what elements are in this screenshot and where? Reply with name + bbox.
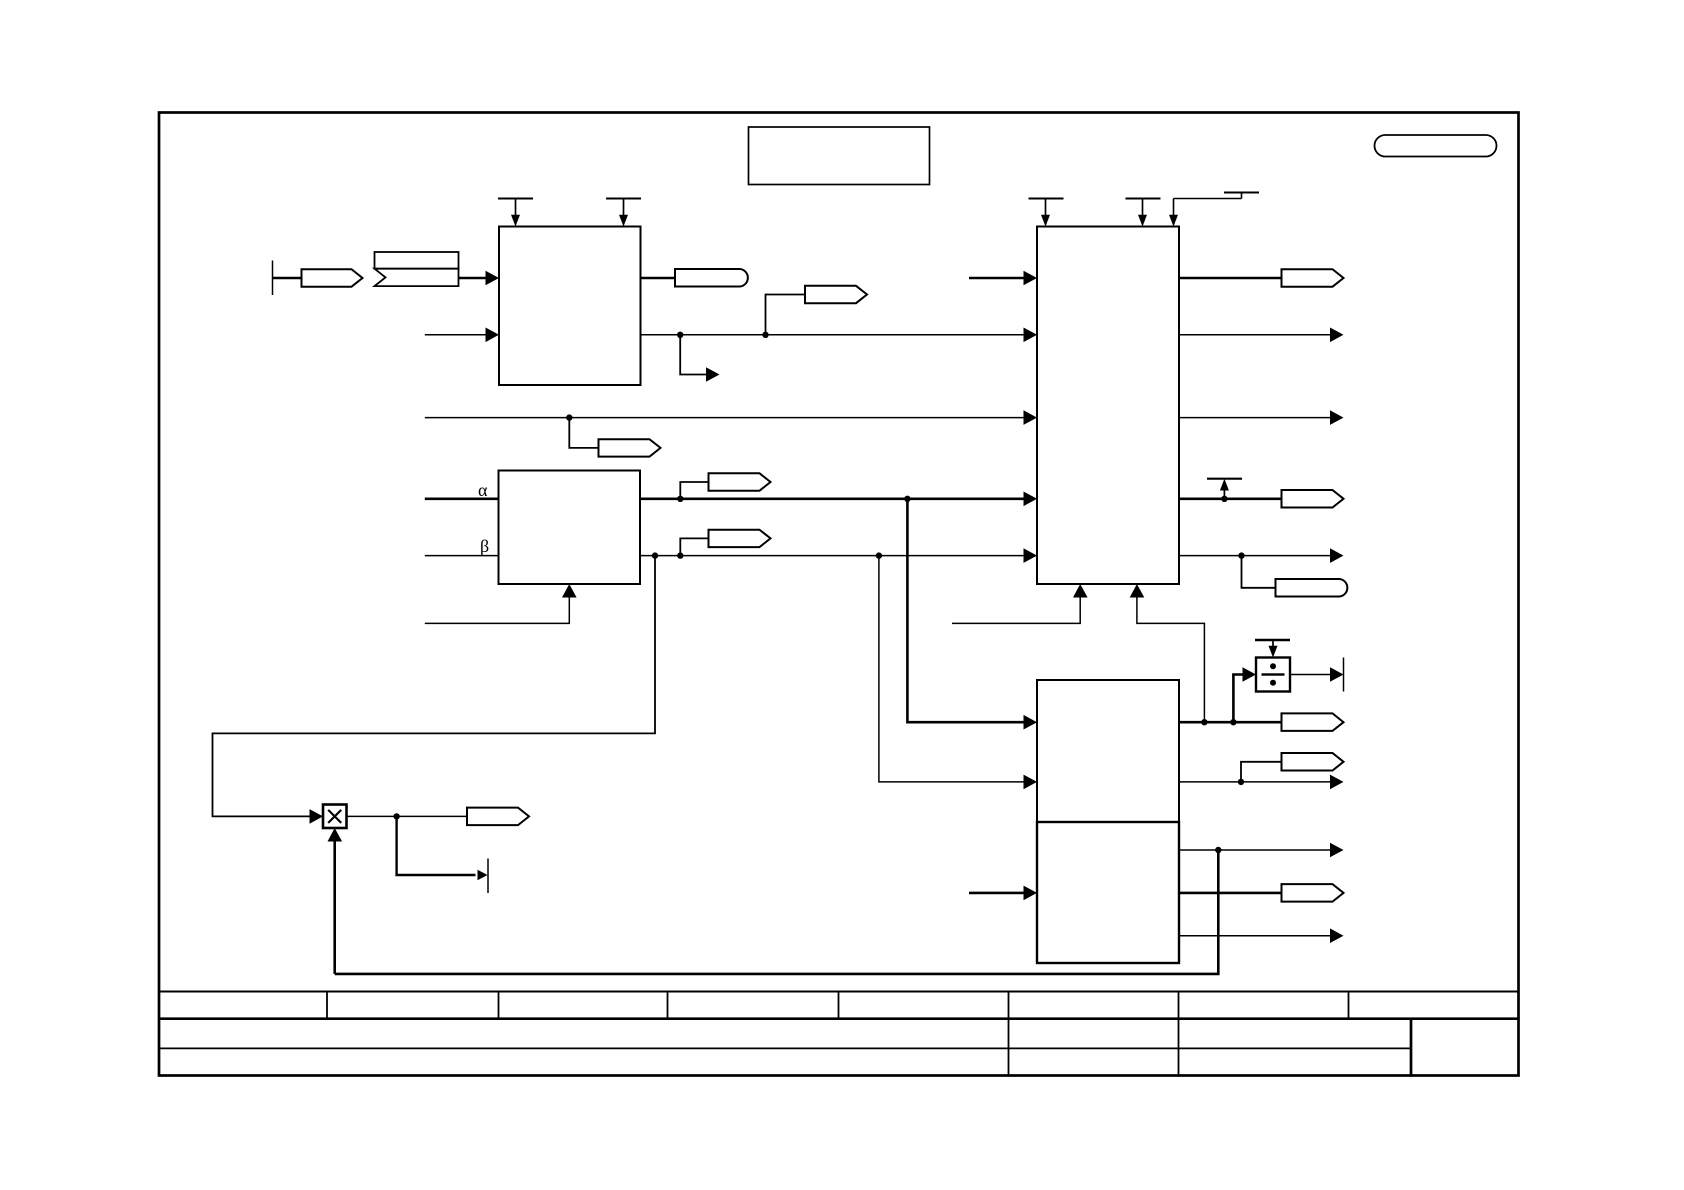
terminator bar divider output — [1343, 658, 1345, 692]
T-bar up symbol — [1207, 479, 1242, 499]
wire U4 out row935 — [1179, 935, 1331, 937]
block U1 — [499, 227, 641, 386]
wire alpha U2 to U3 — [640, 497, 1025, 500]
beta input wire — [425, 555, 499, 557]
arrowhead into U3 bottom left — [1073, 584, 1088, 598]
wire alpha branch to U4 — [907, 499, 1024, 722]
junction dot flag3 branch — [762, 332, 768, 338]
wire beta branch to U4 — [879, 556, 1025, 782]
junction dot T-up symbol — [1221, 496, 1227, 502]
wire beta U2 to U3 — [640, 555, 1025, 557]
terminator bar multiplier branch — [487, 859, 489, 894]
junction dot y417 — [566, 414, 572, 420]
pointed flag3 — [805, 286, 867, 303]
arrowhead divider output — [1330, 667, 1344, 682]
junction dot row722 a — [1201, 719, 1207, 725]
arrowhead into U3 bottom right — [1130, 584, 1145, 598]
arrowhead into U3 in3 — [1024, 410, 1038, 425]
pointed flag12 — [467, 808, 529, 826]
feedback return wire thick — [335, 850, 1219, 974]
divider box — [1256, 658, 1290, 692]
title block row1 divider f — [1178, 992, 1180, 1019]
multiplier box — [323, 805, 347, 829]
title block row1 divider d — [838, 992, 840, 1019]
wire U4 out row850 — [1179, 849, 1331, 851]
title block row1 divider b — [498, 992, 500, 1019]
svg-text:β: β — [480, 536, 489, 556]
wire to divider box — [1233, 675, 1244, 723]
arrowhead multiplier bottom — [328, 828, 343, 842]
junction dot out2 branch — [677, 332, 683, 338]
title block lower divider f — [1178, 1019, 1180, 1076]
arrowhead into U3 in1 — [1024, 271, 1038, 286]
branch wire to terminator — [397, 816, 476, 875]
wire U3 out row555 — [1179, 555, 1331, 557]
arrowhead into terminator — [478, 870, 488, 880]
open arrowhead out781 — [1330, 775, 1344, 790]
elbow wire to flag4 — [569, 418, 598, 448]
T-bar clock input U3 mid — [1126, 199, 1161, 227]
wire U3 out row278 — [1179, 277, 1282, 280]
border frame — [159, 113, 1519, 1076]
wire U3 in1 — [969, 277, 1025, 280]
junction dot out781 — [1238, 779, 1244, 785]
pointed flag5 — [709, 473, 771, 490]
pointed flag U3 out278 — [1282, 269, 1344, 287]
wire net row y417 — [425, 417, 1025, 419]
elbow wire to rounded flag8 — [1242, 556, 1277, 588]
T-bar clock input U1 right — [606, 199, 641, 227]
junction dot beta flag branch — [677, 552, 683, 558]
wire U3 out row334 — [1179, 334, 1331, 336]
title box — [749, 127, 930, 185]
wire U4 out row892 — [1179, 892, 1282, 895]
title block row1 divider c — [667, 992, 669, 1019]
wire IN1 to flag — [273, 277, 302, 280]
block U3 — [1037, 227, 1179, 585]
pointed flag10 — [1282, 753, 1344, 771]
revision pill — [1375, 135, 1497, 157]
junction dot row722 b — [1230, 719, 1236, 725]
wire U1 out1 — [641, 277, 676, 280]
junction dot beta down branch — [876, 552, 882, 558]
rounded flag U1 out1 — [675, 269, 748, 287]
title block lower divider e — [1008, 1019, 1010, 1076]
arrowhead into U3 in2 — [1024, 328, 1038, 343]
pointed flag U4 out722 — [1282, 713, 1344, 731]
title block row1 bottom line — [159, 1017, 1519, 1020]
arrowhead into U4 in1 — [1024, 715, 1038, 730]
wire U4 lower input — [969, 892, 1025, 895]
T-bar above divider box — [1255, 640, 1290, 658]
wire multiplier output — [347, 815, 468, 817]
open arrowhead out334 — [1330, 328, 1344, 343]
junction dot out850 feedback — [1215, 847, 1221, 853]
wire banner to U1 — [459, 277, 488, 280]
junction dot alpha down branch — [904, 496, 910, 502]
open arrowhead out935 — [1330, 928, 1344, 943]
rounded flag8 — [1276, 579, 1348, 597]
title block row2 bottom line — [159, 1047, 1411, 1049]
open arrowhead out555 — [1330, 548, 1344, 563]
wire divider box output — [1290, 674, 1331, 676]
elbow wire to flag5 — [680, 482, 708, 499]
junction dot multiplier output — [393, 813, 399, 819]
wire U1 out2 to U3 in2 — [641, 334, 1025, 336]
divider symbol — [1262, 663, 1285, 686]
wire U2 bottom input — [425, 597, 570, 623]
arrowhead into U3 in5 — [1024, 548, 1038, 563]
pointed flag U3 out498 — [1282, 490, 1344, 508]
elbow wire to flag6 — [680, 538, 708, 555]
arrowhead into divider box — [1243, 667, 1257, 682]
T-bar clock input U1 left — [498, 199, 533, 227]
feedback wire beta loop — [213, 556, 656, 817]
elbow wire to flag10 — [1241, 762, 1282, 782]
open arrowhead out850 — [1330, 843, 1344, 858]
svg-text:α: α — [478, 480, 488, 500]
wire input U1 in2 — [425, 334, 487, 336]
pointed flag4 — [599, 439, 661, 456]
arrowhead into U1 in2 — [486, 328, 500, 343]
arrowhead into U3 in4 — [1024, 492, 1038, 507]
title block top line — [159, 991, 1519, 993]
wire U4 out row722 — [1179, 721, 1282, 724]
title block row1 divider e — [1008, 992, 1010, 1019]
banner label shape — [375, 252, 459, 286]
junction dot beta feedback — [652, 552, 658, 558]
arrowhead into multiplier — [310, 809, 324, 824]
arrowhead into U1 in1 — [486, 271, 500, 286]
T-bar clock input U3 left — [1029, 199, 1064, 227]
wire U3 out row498 — [1179, 497, 1282, 500]
wire U3 bottom input left — [952, 598, 1080, 624]
junction dot alpha flag branch — [677, 496, 683, 502]
title block row1 divider g — [1348, 992, 1350, 1019]
arrowhead into U2 bottom — [562, 584, 577, 598]
stepped net input U3 top right — [1169, 193, 1259, 227]
input terminator bar IN1 — [272, 261, 274, 296]
arrowhead into U4 in3 — [1024, 886, 1038, 901]
junction dot out555 branch — [1238, 552, 1244, 558]
elbow wire to flag3 — [766, 295, 806, 335]
open arrowhead branch — [706, 367, 720, 381]
branch wire to open arrow — [680, 335, 707, 375]
title block row1 divider a — [326, 992, 328, 1019]
block U4 upper — [1037, 680, 1179, 822]
block U4 lower — [1037, 822, 1179, 963]
open arrowhead out417 — [1330, 410, 1344, 425]
alpha input wire — [425, 497, 499, 500]
multiplier X symbol — [328, 810, 341, 823]
wire U3 out row417 — [1179, 417, 1331, 419]
block U2 — [499, 471, 641, 585]
pointed flag U4 out892 — [1282, 884, 1344, 902]
input flag IN1 — [302, 269, 363, 287]
pointed flag6 — [709, 530, 771, 547]
wire multiplier bottom vertical — [333, 841, 336, 974]
arrowhead into U4 in2 — [1024, 775, 1038, 790]
title block lower divider thick — [1410, 1019, 1413, 1076]
wire U3 bottom input right — [1137, 597, 1205, 722]
wire U4 out row781 — [1179, 781, 1331, 783]
